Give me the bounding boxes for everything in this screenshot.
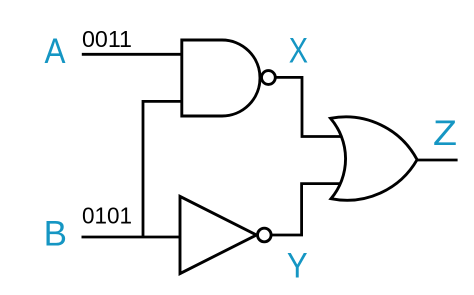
svg-text:Y: Y bbox=[287, 246, 308, 285]
svg-text:Z: Z bbox=[433, 114, 457, 153]
svg-text:X: X bbox=[289, 32, 308, 71]
NOT gate U2 output bubble bbox=[258, 228, 272, 242]
svg-text:0011: 0011 bbox=[82, 26, 132, 52]
svg-text:0101: 0101 bbox=[82, 202, 132, 228]
svg-text:B: B bbox=[44, 215, 67, 254]
OR gate U3 body bbox=[331, 117, 418, 200]
wire X: NAND output to OR top input bbox=[268, 77, 346, 136]
wire B input bbox=[82, 236, 196, 239]
svg-text:A: A bbox=[45, 32, 67, 71]
wire Y: NOT output to OR bottom input bbox=[264, 184, 346, 235]
NAND gate U1 output bubble bbox=[262, 71, 276, 85]
NAND gate U1 body bbox=[182, 40, 260, 116]
NOT gate U2 body bbox=[180, 196, 256, 273]
wire junction B to NAND lower input bbox=[143, 101, 195, 237]
wire A input bbox=[82, 53, 195, 56]
wire Z output bbox=[410, 159, 458, 162]
